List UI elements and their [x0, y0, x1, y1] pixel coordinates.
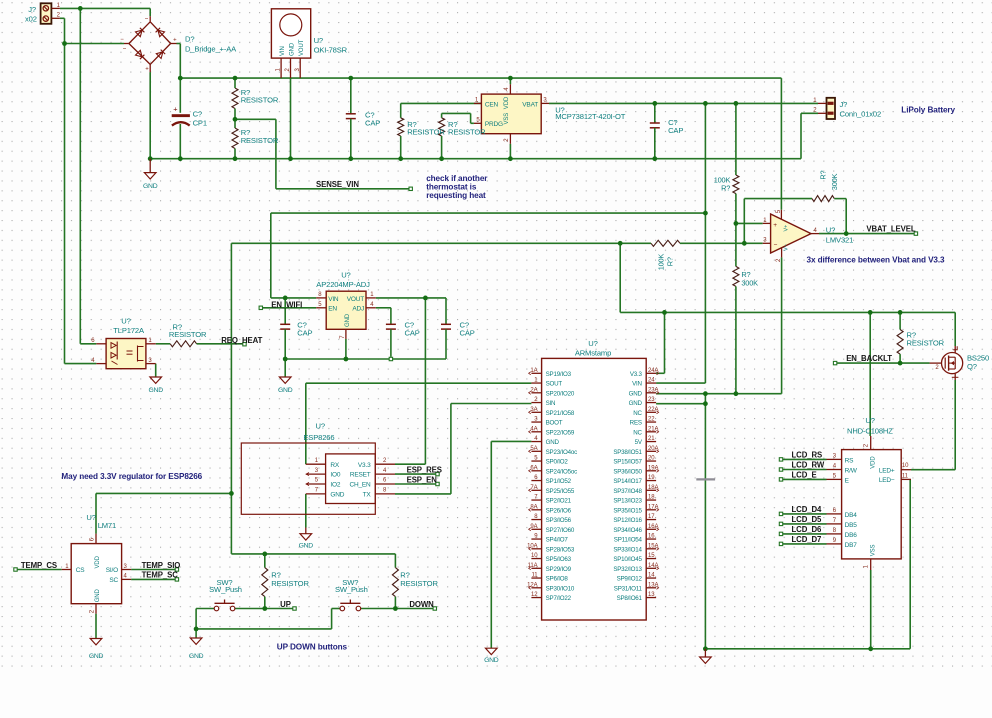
svg-text:D_Bridge_+-AA: D_Bridge_+-AA: [185, 44, 237, 53]
svg-text:+: +: [173, 105, 177, 114]
svg-text:6A: 6A: [530, 465, 537, 471]
svg-text:VIN: VIN: [632, 381, 642, 388]
svg-text:20A: 20A: [648, 446, 658, 452]
svg-text:SP9/IO12: SP9/IO12: [617, 576, 643, 583]
svg-text:SI/O: SI/O: [106, 567, 118, 574]
svg-text:May need 3.3V regulator for ES: May need 3.3V regulator for ESP8266: [61, 472, 202, 481]
svg-text:R?: R?: [665, 257, 674, 266]
svg-text:LCD_D4: LCD_D4: [792, 505, 822, 514]
svg-text:OKI-78SR: OKI-78SR: [314, 46, 348, 55]
svg-text:V3.3: V3.3: [630, 371, 643, 378]
svg-text:SP2/IO21: SP2/IO21: [546, 498, 572, 505]
svg-text:V3.3: V3.3: [358, 462, 371, 469]
svg-text:LCD_D7: LCD_D7: [792, 535, 822, 544]
svg-text:RESISTOR: RESISTOR: [271, 579, 309, 588]
svg-text:RESISTOR: RESISTOR: [400, 579, 438, 588]
svg-text:NC: NC: [633, 429, 642, 436]
svg-text:RESISTOR: RESISTOR: [169, 330, 207, 339]
svg-text:300K: 300K: [741, 279, 758, 288]
svg-text:SP10/IO45: SP10/IO45: [613, 556, 642, 563]
svg-text:R?: R?: [819, 170, 828, 179]
svg-text:18: 18: [648, 495, 655, 501]
svg-text:MCP73812T-420I-OT: MCP73812T-420I-OT: [555, 112, 626, 121]
svg-text:CEN: CEN: [485, 101, 499, 108]
svg-text:CH_EN: CH_EN: [349, 482, 371, 489]
svg-text:10: 10: [531, 553, 538, 559]
svg-text:3A: 3A: [530, 407, 537, 413]
svg-text:SP29/IO9: SP29/IO9: [546, 566, 572, 573]
svg-text:16: 16: [648, 534, 655, 540]
svg-text:14: 14: [648, 573, 655, 579]
svg-text:SP4/IO7: SP4/IO7: [546, 537, 569, 544]
svg-text:1A: 1A: [530, 368, 537, 374]
svg-text:VDD: VDD: [504, 96, 510, 109]
svg-text:SP37/IO48: SP37/IO48: [613, 488, 642, 495]
svg-text:23A: 23A: [648, 387, 658, 393]
svg-text:SIN: SIN: [546, 400, 556, 407]
svg-text:19A: 19A: [648, 465, 658, 471]
svg-text:21: 21: [648, 436, 655, 442]
svg-text:GND: GND: [330, 492, 344, 499]
svg-text:SP19/IO3: SP19/IO3: [546, 371, 572, 378]
svg-text:x02: x02: [25, 15, 37, 24]
svg-text:+: +: [145, 67, 149, 73]
svg-text:SENSE_VIN: SENSE_VIN: [316, 180, 359, 189]
svg-text:SP14/IO17: SP14/IO17: [613, 478, 642, 485]
svg-text:~: ~: [145, 17, 149, 23]
svg-text:17: 17: [648, 514, 655, 520]
svg-text:SP20/IO20: SP20/IO20: [546, 390, 575, 397]
svg-text:CP1: CP1: [193, 118, 207, 127]
svg-text:SP27/IO60: SP27/IO60: [546, 527, 575, 534]
svg-text:9A: 9A: [530, 524, 537, 530]
svg-text:22A: 22A: [648, 407, 658, 413]
svg-text:U?: U?: [86, 513, 95, 522]
svg-text:Q?: Q?: [967, 362, 977, 371]
svg-text:+: +: [773, 222, 777, 229]
svg-text:VIN: VIN: [280, 46, 286, 56]
svg-text:21A: 21A: [648, 426, 658, 432]
svg-text:R?: R?: [721, 184, 730, 193]
svg-text:23: 23: [648, 397, 655, 403]
svg-text:EN_WIFI: EN_WIFI: [271, 300, 302, 309]
svg-text:U?: U?: [121, 316, 130, 325]
svg-text:LCD_D5: LCD_D5: [792, 515, 822, 524]
svg-text:16A: 16A: [648, 524, 658, 530]
svg-text:VDD: VDD: [870, 456, 876, 469]
svg-text:C?: C?: [193, 109, 202, 118]
svg-text:TX: TX: [363, 492, 372, 499]
svg-text:SP25/IO55: SP25/IO55: [546, 488, 575, 495]
svg-text:SP23/IO4oc: SP23/IO4oc: [546, 449, 577, 456]
svg-text:GND: GND: [278, 387, 293, 394]
svg-text:EN: EN: [328, 306, 337, 313]
svg-text:10: 10: [902, 463, 909, 469]
svg-text:CS: CS: [76, 567, 85, 574]
svg-text:RESISTOR: RESISTOR: [241, 96, 279, 105]
svg-text:RESISTOR: RESISTOR: [407, 127, 445, 136]
svg-text:ESP_EN: ESP_EN: [407, 475, 438, 484]
svg-text:15: 15: [648, 553, 655, 559]
svg-text:DB5: DB5: [845, 522, 858, 529]
svg-text:AP2204MP-ADJ: AP2204MP-ADJ: [316, 280, 370, 289]
svg-text:13: 13: [648, 592, 655, 598]
svg-text:CAP: CAP: [405, 328, 420, 337]
svg-text:RS: RS: [845, 457, 854, 464]
svg-text:VBAT_LEVEL: VBAT_LEVEL: [866, 225, 915, 234]
svg-text:UP DOWN buttons: UP DOWN buttons: [277, 642, 348, 651]
svg-text:SP11/IO54: SP11/IO54: [614, 537, 643, 544]
svg-text:LCD_E: LCD_E: [792, 471, 817, 480]
svg-text:J?: J?: [840, 100, 848, 109]
svg-text:GND: GND: [484, 657, 499, 664]
svg-text:GND: GND: [189, 653, 204, 660]
svg-text:Conn_01x02: Conn_01x02: [840, 109, 882, 118]
svg-text:−: −: [774, 241, 778, 248]
svg-text:RESISTOR: RESISTOR: [448, 127, 486, 136]
svg-text:RESISTOR: RESISTOR: [241, 136, 279, 145]
svg-text:J?: J?: [28, 5, 36, 14]
svg-text:SP3/IO56: SP3/IO56: [546, 517, 572, 524]
svg-text:REQ_HEAT: REQ_HEAT: [221, 336, 262, 345]
svg-text:SP32/IO13: SP32/IO13: [613, 566, 642, 573]
svg-text:U?: U?: [316, 421, 325, 430]
svg-text:13A: 13A: [648, 582, 658, 588]
svg-text:VDD: VDD: [95, 555, 101, 568]
svg-text:17A: 17A: [648, 504, 658, 510]
svg-text:NC: NC: [633, 410, 642, 417]
svg-text:−: −: [120, 37, 124, 43]
svg-text:RX: RX: [330, 462, 339, 469]
svg-text:SP15/IO57: SP15/IO57: [613, 459, 642, 466]
svg-text:TLP172A: TLP172A: [113, 326, 145, 335]
svg-text:BS250: BS250: [967, 353, 989, 362]
svg-text:SP31/IO11: SP31/IO11: [614, 585, 643, 592]
svg-text:VOUT: VOUT: [347, 296, 364, 303]
svg-text:D?: D?: [185, 34, 194, 43]
svg-text:3x difference between Vbat and: 3x difference between Vbat and V3.3: [807, 256, 946, 265]
svg-text:ESP_RES: ESP_RES: [407, 465, 442, 474]
svg-text:LCD_RS: LCD_RS: [792, 451, 823, 460]
svg-text:SP6/IO8: SP6/IO8: [546, 576, 569, 583]
svg-text:VOUT: VOUT: [299, 39, 305, 56]
svg-text:requesting heat: requesting heat: [426, 191, 486, 200]
svg-text:24: 24: [648, 378, 655, 384]
svg-text:GND: GND: [95, 589, 101, 603]
svg-text:U?: U?: [341, 270, 350, 279]
svg-text:NHD-C108HZ: NHD-C108HZ: [847, 427, 893, 436]
svg-text:GND: GND: [629, 400, 643, 407]
svg-text:SP5/IO63: SP5/IO63: [546, 556, 572, 563]
svg-text:VSS: VSS: [870, 544, 876, 556]
svg-text:TEMP_SC: TEMP_SC: [142, 571, 179, 580]
svg-text:DB4: DB4: [845, 512, 858, 519]
svg-text:SP33/IO14: SP33/IO14: [613, 546, 642, 553]
svg-text:7A: 7A: [530, 485, 537, 491]
svg-text:100K: 100K: [656, 254, 665, 271]
svg-text:VSS: VSS: [504, 113, 510, 125]
svg-text:DB6: DB6: [845, 532, 858, 539]
svg-text:GND: GND: [89, 653, 104, 660]
svg-text:SP1/IO52: SP1/IO52: [546, 478, 572, 485]
svg-text:4A: 4A: [530, 426, 537, 432]
svg-text:CAP: CAP: [460, 328, 475, 337]
svg-text:LM71: LM71: [98, 521, 116, 530]
svg-text:SC: SC: [109, 577, 118, 584]
svg-text:SP24/IO5oc: SP24/IO5oc: [546, 468, 577, 475]
svg-text:RESISTOR: RESISTOR: [907, 338, 945, 347]
svg-text:LiPoly Battery: LiPoly Battery: [901, 105, 955, 114]
svg-text:5V: 5V: [635, 439, 643, 446]
svg-text:SP35/IO15: SP35/IO15: [613, 507, 642, 514]
svg-text:SP0/IO2: SP0/IO2: [546, 459, 569, 466]
svg-text:VIN: VIN: [328, 296, 339, 303]
svg-text:LED+: LED+: [879, 467, 895, 474]
svg-text:LMV321: LMV321: [826, 236, 853, 245]
svg-text:GND: GND: [629, 390, 643, 397]
svg-text:SP7/IO22: SP7/IO22: [546, 595, 572, 602]
svg-text:15A: 15A: [648, 543, 658, 549]
svg-text:ARMstamp: ARMstamp: [575, 348, 611, 357]
svg-text:SP22/IO59: SP22/IO59: [546, 429, 575, 436]
svg-text:SP36/IO50: SP36/IO50: [613, 468, 642, 475]
svg-text:22: 22: [648, 417, 655, 423]
svg-text:ESP8266: ESP8266: [303, 433, 334, 442]
svg-text:SP34/IO46: SP34/IO46: [613, 527, 642, 534]
svg-text:RESET: RESET: [350, 472, 371, 479]
svg-text:SW_Push: SW_Push: [209, 585, 242, 594]
svg-text:U?: U?: [865, 416, 874, 425]
svg-text:BOOT: BOOT: [546, 420, 563, 427]
svg-text:SP30/IO10: SP30/IO10: [546, 585, 575, 592]
svg-text:19: 19: [648, 475, 655, 481]
svg-text:11: 11: [902, 474, 909, 480]
svg-text:SP26/IO6: SP26/IO6: [546, 507, 572, 514]
svg-text:U?: U?: [314, 36, 323, 45]
svg-text:RES: RES: [630, 420, 642, 427]
svg-text:PRDG: PRDG: [485, 121, 503, 128]
svg-text:V+: V+: [784, 225, 790, 232]
svg-text:TEMP_CS: TEMP_CS: [21, 561, 57, 570]
svg-text:CAP: CAP: [365, 118, 380, 127]
svg-text:IO2: IO2: [330, 482, 340, 489]
svg-text:GND: GND: [546, 439, 560, 446]
svg-text:SP21/IO58: SP21/IO58: [546, 410, 575, 417]
svg-text:UP: UP: [280, 600, 291, 609]
svg-text:IO0: IO0: [330, 472, 340, 479]
svg-text:ADJ: ADJ: [352, 306, 364, 313]
svg-text:EN_BACKLT: EN_BACKLT: [846, 354, 892, 363]
svg-text:GND: GND: [345, 313, 351, 327]
svg-text:VBAT: VBAT: [522, 101, 538, 108]
svg-text:LCD_D6: LCD_D6: [792, 525, 822, 534]
svg-text:GND: GND: [289, 42, 295, 56]
svg-text:U?: U?: [588, 339, 597, 348]
svg-text:DOWN: DOWN: [409, 600, 434, 609]
svg-text:GND: GND: [149, 387, 164, 394]
svg-text:SP8/IO61: SP8/IO61: [617, 595, 643, 602]
svg-text:300K: 300K: [830, 173, 839, 190]
svg-text:SP38/IO51: SP38/IO51: [613, 449, 642, 456]
svg-text:SW_Push: SW_Push: [335, 585, 368, 594]
svg-text:+: +: [173, 38, 177, 44]
svg-text:SOUT: SOUT: [546, 381, 563, 388]
svg-text:SP28/IO53: SP28/IO53: [546, 546, 575, 553]
svg-text:SP12/IO16: SP12/IO16: [613, 517, 642, 524]
svg-text:V−: V−: [784, 244, 790, 251]
svg-text:8A: 8A: [530, 504, 537, 510]
svg-text:CAP: CAP: [297, 328, 312, 337]
svg-text:20: 20: [648, 456, 655, 462]
svg-text:5A: 5A: [530, 446, 537, 452]
svg-text:LED−: LED−: [879, 477, 895, 484]
svg-text:R/W: R/W: [845, 467, 858, 474]
svg-text:2A: 2A: [530, 387, 537, 393]
svg-text:18A: 18A: [648, 485, 658, 491]
svg-text:TEMP_SIO: TEMP_SIO: [142, 561, 181, 570]
svg-text:24A: 24A: [648, 368, 658, 374]
svg-text:12: 12: [531, 592, 538, 598]
svg-text:11: 11: [531, 573, 538, 579]
svg-text:DB7: DB7: [845, 542, 858, 549]
svg-text:LCD_RW: LCD_RW: [792, 461, 825, 470]
svg-text:CAP: CAP: [668, 126, 683, 135]
svg-text:GND: GND: [299, 543, 314, 550]
svg-text:14A: 14A: [648, 563, 658, 569]
svg-text:~: ~: [123, 47, 127, 53]
svg-text:U?: U?: [826, 225, 835, 234]
svg-text:SP13/IO23: SP13/IO23: [613, 498, 642, 505]
svg-text:GND: GND: [143, 183, 158, 190]
